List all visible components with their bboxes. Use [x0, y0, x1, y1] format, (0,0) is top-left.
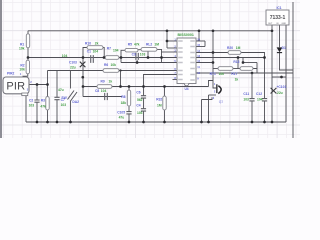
svg-text:22u: 22u — [70, 65, 76, 69]
wire IC1 IN pin to D1 — [279, 25, 281, 47]
trimmer RL2 — [141, 48, 157, 52]
svg-text:1M: 1M — [157, 103, 162, 107]
svg-text:R32: R32 — [156, 97, 162, 101]
svg-text:C11: C11 — [243, 92, 249, 96]
wire rail y=86.5 to transistor branch — [83, 86, 209, 88]
junction x243 y62.5 — [242, 61, 245, 64]
svg-text:R20: R20 — [227, 46, 233, 50]
capacitor C6 562 — [141, 96, 146, 98]
svg-text:1M: 1M — [236, 46, 241, 50]
svg-text:104: 104 — [62, 54, 68, 58]
wire node stub x=243 — [242, 58, 244, 63]
PIR pin 3 tab — [22, 93, 28, 96]
svg-text:R6: R6 — [104, 63, 108, 67]
svg-text:RL2: RL2 — [146, 43, 152, 47]
wire C5 bottom to ground bus — [128, 114, 130, 122]
capacitor C7 — [54, 97, 59, 99]
svg-text:GND: GND — [282, 23, 287, 25]
svg-text:PIR2: PIR2 — [7, 72, 14, 76]
IC U4 BISS0001 body — [177, 38, 196, 84]
wire link y=62.5 — [243, 62, 257, 64]
junction node bus/R4 riser — [166, 29, 169, 32]
wire R1 bottom to rail / R2 top lead — [27, 48, 29, 60]
svg-text:R16: R16 — [233, 60, 239, 64]
junction rail62.5/x213 — [212, 61, 215, 64]
junction rail/R10 — [103, 56, 106, 59]
svg-text:C103: C103 — [69, 61, 77, 65]
wire stub y=77 — [272, 76, 286, 78]
wire RT1 left lead — [213, 68, 218, 70]
capacitor C10 22u electrolytic — [271, 88, 277, 94]
svg-text:10k: 10k — [111, 63, 117, 67]
wire R8 top lead from rail y=86.5 — [128, 87, 130, 91]
junction node bus/IC1 OUT — [271, 29, 274, 32]
wire Q1 collector lead — [209, 94, 217, 96]
transistor Q1 — [216, 84, 217, 93]
svg-text:BISS0001: BISS0001 — [178, 33, 194, 37]
junction rail/x161 — [160, 56, 163, 59]
wire bus riser x=213 — [212, 31, 214, 81]
capacitor C5 47u — [126, 112, 131, 114]
junction rail/R1-R2 — [27, 56, 30, 59]
svg-text:103: 103 — [140, 53, 146, 57]
svg-text:U4: U4 — [185, 87, 189, 91]
wire U4 pin 8 stub — [173, 79, 178, 81]
junction ground bus x=143.5 — [142, 121, 145, 124]
wire U4 pin 14 wire to R20 — [196, 52, 228, 54]
svg-text:C105: C105 — [117, 111, 125, 115]
junction ground bus x=201.5 — [200, 121, 203, 124]
svg-text:C8: C8 — [95, 89, 99, 93]
junction ground bus x=164.5 — [163, 121, 166, 124]
svg-text:103: 103 — [137, 111, 143, 115]
wire R20 right lead to rail — [241, 53, 265, 58]
junction ground bus x=70.5 — [69, 121, 72, 124]
wire pin 16 riser to bus — [198, 31, 200, 41]
svg-text:103: 103 — [243, 97, 249, 101]
junction rail/C13 — [82, 56, 85, 59]
capacitor C13 22u electrolytic — [80, 62, 86, 68]
capacitor C2 103 — [34, 100, 39, 102]
svg-text:1k: 1k — [235, 78, 239, 82]
wire R17 right lead to output line — [253, 69, 257, 74]
resistor R10 2k — [87, 46, 103, 50]
wire C6-C4 middle link — [143, 98, 145, 108]
wire rail y=96.5 from x=83 — [83, 96, 122, 98]
svg-text:47u: 47u — [119, 115, 125, 119]
diode D1 — [277, 47, 283, 52]
svg-text:104: 104 — [113, 49, 119, 53]
junction ground bus x=57 — [56, 121, 59, 124]
IC U4 internal pin names — [178, 41, 195, 80]
svg-text:10k: 10k — [19, 67, 25, 71]
IC1 7133-1 regulator body — [266, 10, 289, 25]
wire R5 left lead down through rail — [121, 50, 125, 62]
wire C9 bottom stub to rail y=62.5 — [136, 60, 138, 63]
junction PIR out/R3 — [46, 83, 49, 86]
svg-text:R5: R5 — [128, 43, 132, 47]
wire R2 bottom hook to PIR pin 1 — [23, 74, 28, 79]
svg-text:C9: C9 — [132, 53, 136, 57]
capacitor C11 103 — [249, 99, 254, 101]
wire Q1 emitter riser to ground bus — [201, 100, 203, 123]
wire x120.5 rail70 to rail86 — [120, 71, 122, 87]
junction x83 y77 — [81, 76, 84, 79]
svg-text:C4: C4 — [136, 104, 140, 108]
wire ground bus y=122 — [26, 121, 286, 123]
resistor R1 10k — [26, 34, 29, 48]
svg-text:IC1: IC1 — [277, 6, 282, 10]
svg-text:+C101: +C101 — [277, 85, 287, 89]
junction ground bus x=37 — [36, 121, 39, 124]
capacitor C1 104 — [91, 55, 94, 63]
junction ground bus x=272 — [271, 121, 274, 124]
wire C11 top lead from output line — [251, 73, 253, 98]
wire R8 bottom to C5 top — [128, 106, 130, 111]
svg-text:1M: 1M — [154, 43, 159, 47]
wire C12 bottom to ground bus — [264, 101, 266, 122]
svg-text:22u: 22u — [277, 91, 283, 95]
wire PIR pin 3 drop to ground bus — [25, 94, 27, 122]
svg-text:SW: SW — [61, 96, 67, 100]
resistor R2 10k — [26, 60, 29, 74]
svg-text:C1: C1 — [87, 50, 91, 54]
svg-text:R7: R7 — [107, 47, 111, 51]
junction ground bus x=208.5 — [207, 121, 210, 124]
capacitor C9 103 — [136, 53, 138, 60]
wire C6 top lead — [143, 87, 145, 96]
wire ground bus right riser to IC1 GND — [285, 25, 287, 122]
wire node x=47.5 up to rail y=70.5 — [47, 71, 49, 85]
wire PIR pin 2 output — [29, 84, 48, 86]
junction rail/R20 — [263, 56, 266, 59]
wire U4 pin 3 wire y=52 — [162, 51, 178, 53]
junction ground bus x=129 — [128, 121, 131, 124]
wire R1 top lead from bus corner — [27, 31, 29, 34]
resistor R32 1M — [163, 96, 166, 110]
resistor R5 — [125, 48, 138, 52]
svg-text:R9: R9 — [101, 79, 105, 83]
svg-text:10k: 10k — [19, 46, 25, 50]
wire rail y=57.5 right of U4 to node — [196, 57, 265, 59]
svg-text:RT1: RT1 — [210, 72, 216, 76]
junction pin1 wire/x167 — [166, 40, 169, 43]
capacitor C4 103 — [141, 109, 146, 111]
wire R10 right lead down to rail — [103, 48, 104, 58]
junction node bus/pin16 riser — [198, 29, 201, 32]
svg-text:1k: 1k — [109, 79, 113, 83]
resistor R6 on rail — [103, 69, 119, 73]
wire RT1 right lead up to rail — [233, 68, 238, 70]
junction PIR out/C2 — [36, 83, 39, 86]
svg-text:47u: 47u — [58, 88, 64, 92]
wire RL2 wiper stub to rail — [147, 51, 149, 57]
wire RL2 right lead down — [157, 49, 162, 62]
wire R32 top lead from rail y=86.5 — [164, 87, 166, 97]
svg-text:18k: 18k — [121, 101, 127, 105]
junction rail62.5/C9 — [136, 61, 139, 64]
IC U4 bottom notch — [184, 84, 189, 86]
trimmer RT1 10k — [218, 67, 233, 71]
left window edge strip — [0, 0, 2, 138]
svg-text:103: 103 — [29, 104, 35, 108]
wire U4 pin 2 wire y=48 — [167, 47, 177, 49]
svg-text:104: 104 — [101, 89, 107, 93]
junction ground bus x=47.5 — [46, 121, 49, 124]
svg-text:2k: 2k — [95, 41, 99, 45]
wire U4 pin 16 wire — [196, 40, 205, 42]
switch SW1 — [68, 91, 78, 102]
svg-text:103: 103 — [61, 103, 67, 107]
wire R10 left lead down to rail — [83, 48, 87, 58]
svg-text:R10: R10 — [85, 41, 91, 45]
resistor R17 1k — [240, 67, 253, 71]
svg-text:R17: R17 — [231, 72, 237, 76]
junction ground bus x=252 — [251, 121, 254, 124]
junction rail86/x120 — [119, 85, 122, 88]
wire R17 left lead — [238, 68, 240, 70]
junction rail/R5 — [120, 56, 123, 59]
wire Q1 collector riser to ground bus — [208, 95, 210, 122]
svg-text:47k: 47k — [40, 105, 46, 109]
junction output line/C11 — [251, 72, 254, 75]
svg-text:C6: C6 — [136, 91, 140, 95]
junction rail86/C6 — [142, 85, 145, 88]
capacitor C12 104 — [262, 99, 267, 101]
junction rail/x238 — [237, 56, 240, 59]
wire node x=264.5 to ground bus — [264, 58, 266, 99]
wire node x=167 drop from bus — [166, 31, 168, 48]
resistor R9 1k — [97, 85, 112, 89]
svg-text:R8: R8 — [121, 95, 125, 99]
wire R5 to RL2 link — [138, 49, 141, 51]
svg-text:104: 104 — [93, 50, 99, 54]
wire rail y=70.5 to U4 pin 6 — [48, 70, 178, 72]
wire C11 bottom to ground bus — [251, 101, 253, 122]
wire C7 bottom to ground bus — [56, 100, 58, 122]
resistor R8 18k — [127, 90, 130, 106]
svg-text:10k: 10k — [219, 72, 225, 76]
svg-text:D1: D1 — [282, 46, 286, 50]
junction y77 stub — [280, 76, 283, 79]
wire node x=37 drop to C2 — [36, 85, 38, 100]
wire link x=257 down — [256, 63, 258, 69]
svg-text:C2: C2 — [29, 99, 33, 103]
resistor R3 47k — [46, 97, 49, 111]
wire IC1 OUT pin riser x=272 — [271, 25, 273, 122]
svg-text:R3: R3 — [41, 99, 45, 103]
wire U4 pin 10 output line y=73 — [196, 72, 293, 74]
junction rail86/R8 — [128, 85, 131, 88]
wire U4 pin 7 wire y=74.5 corner — [144, 75, 178, 87]
svg-text:C12: C12 — [256, 92, 262, 96]
junction rail86/R32 — [163, 85, 166, 88]
junction rail/x148 — [147, 56, 150, 59]
wire SW1 top lead from rail y=70.5 — [70, 71, 72, 89]
junction x213/pin14 wire — [212, 51, 215, 54]
svg-text:562: 562 — [137, 98, 143, 102]
wire pin 15-16 link x=205 — [204, 41, 206, 47]
wire rail y=62.5 to U4 pin 5 — [121, 62, 177, 64]
wire node x=47.5 drop to R3 — [47, 85, 49, 97]
wire analog rail y=57.5 left of U4 — [28, 57, 177, 59]
wire Q1 base staircase from rail — [209, 81, 217, 89]
junction rail86/x83 — [82, 85, 85, 88]
wire SW1 bottom to ground bus — [70, 101, 72, 123]
svg-text:104: 104 — [257, 97, 263, 101]
svg-text:DA2: DA2 — [72, 100, 79, 104]
svg-text:PIR: PIR — [6, 81, 25, 93]
wire C2 bottom to ground bus — [36, 102, 38, 122]
wire node x=238 stub to rail — [237, 58, 239, 69]
junction rail70/x120 — [119, 69, 121, 71]
wire top supply bus y=30.8 — [28, 30, 272, 32]
svg-text:47k: 47k — [134, 43, 140, 47]
resistor R20 1M — [228, 51, 241, 55]
wire node x=83 vertical through C13 — [82, 58, 84, 97]
resistor R7 on rail — [105, 56, 119, 60]
wire right vertical x=293 — [292, 2, 294, 138]
capacitor C8 104 — [105, 93, 108, 100]
junction ground bus x=264.5 — [263, 121, 266, 124]
wire U4 pin 15 wire — [196, 46, 205, 48]
wire U4 pin 1 wire y=41 — [167, 40, 177, 42]
wire D1 cathode down and over — [280, 53, 294, 70]
wire U4 pin 12 wire y=62.5 — [196, 62, 213, 64]
wire C7 top lead from rail y=70.5 — [56, 71, 58, 98]
wire R3 bottom to ground bus — [47, 110, 49, 122]
junction node bus/x213 riser — [212, 29, 215, 32]
wire Q1 emitter wire y=99.5 — [202, 97, 213, 99]
wire R32 bottom to ground bus — [164, 110, 166, 122]
svg-text:7133-1: 7133-1 — [270, 15, 286, 21]
PIR sensor PIR2 body — [3, 77, 29, 94]
wire C4 bottom to ground bus — [143, 111, 145, 122]
